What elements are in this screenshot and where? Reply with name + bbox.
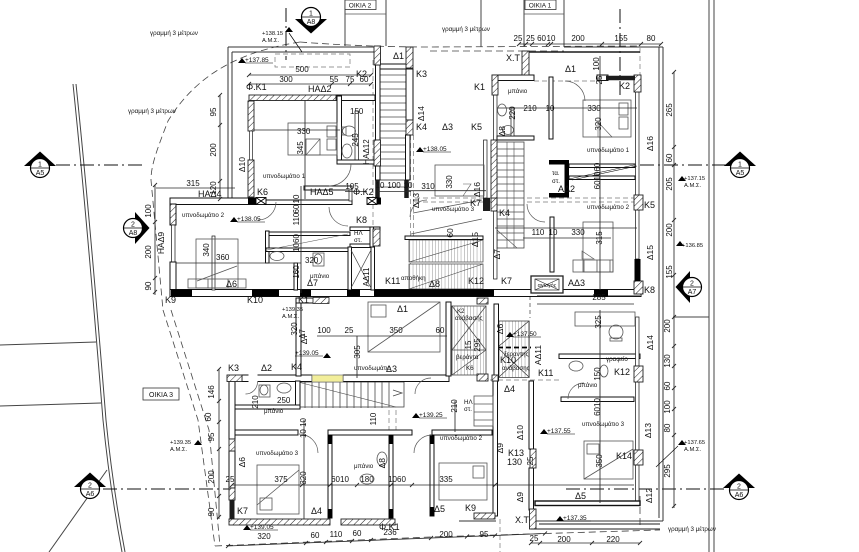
svg-text:Δ6: Δ6: [226, 279, 237, 289]
svg-text:ΟΙΚΙΑ 2: ΟΙΚΙΑ 2: [349, 3, 372, 10]
svg-text:2: 2: [131, 222, 135, 229]
svg-text:K12: K12: [614, 367, 630, 377]
svg-text:στ.: στ.: [354, 237, 362, 244]
svg-text:100: 100: [387, 181, 401, 190]
svg-text:25: 25: [530, 534, 539, 543]
svg-text:60: 60: [665, 153, 674, 162]
svg-text:155: 155: [614, 34, 628, 43]
svg-text:25: 25: [526, 456, 535, 465]
svg-text:A5: A5: [736, 170, 745, 177]
svg-text:K12: K12: [468, 276, 484, 286]
svg-text:υπνοδωμάτιο 2: υπνοδωμάτιο 2: [440, 435, 483, 442]
svg-text:350: 350: [595, 454, 604, 468]
svg-text:Δ12: Δ12: [644, 488, 654, 503]
svg-text:+137.65: +137.65: [684, 440, 705, 446]
svg-text:K10: K10: [247, 295, 263, 305]
svg-text:Δ4: Δ4: [311, 506, 322, 516]
svg-text:55: 55: [330, 75, 339, 84]
svg-text:210: 210: [523, 104, 537, 113]
svg-text:Δ3: Δ3: [442, 122, 453, 132]
svg-text:K11: K11: [385, 276, 400, 286]
svg-text:236: 236: [383, 528, 397, 537]
svg-text:υπνοδωμάτιο 3: υπνοδωμάτιο 3: [432, 206, 475, 213]
svg-text:K8: K8: [356, 215, 367, 225]
svg-text:K3: K3: [416, 69, 427, 79]
svg-text:10 10: 10 10: [299, 417, 308, 438]
svg-text:325: 325: [594, 315, 603, 329]
svg-text:K5: K5: [471, 122, 482, 132]
svg-text:200: 200: [665, 223, 674, 237]
svg-text:155: 155: [665, 265, 674, 279]
svg-text:2: 2: [690, 281, 694, 288]
svg-text:130: 130: [507, 457, 522, 467]
svg-text:1: 1: [309, 11, 313, 18]
svg-text:ΗΛ: ΗΛ: [354, 230, 363, 237]
svg-text:110: 110: [532, 228, 545, 237]
svg-text:στ.: στ.: [552, 178, 560, 185]
svg-text:+137.15: +137.15: [684, 176, 705, 182]
svg-text:Δ2: Δ2: [261, 363, 272, 373]
svg-text:+139.35: +139.35: [170, 440, 191, 446]
svg-text:X.T: X.T: [506, 53, 521, 63]
svg-text:X.T: X.T: [515, 515, 530, 525]
svg-text:90: 90: [207, 507, 216, 516]
svg-text:60: 60: [360, 75, 369, 84]
svg-text:K3: K3: [228, 363, 239, 373]
svg-text:ΗΑΔ5: ΗΑΔ5: [310, 187, 334, 197]
svg-text:γραμμή 3 μέτρων: γραμμή 3 μέτρων: [668, 526, 716, 533]
svg-text:υπνοδωμάτιο 2: υπνοδωμάτιο 2: [182, 212, 225, 219]
svg-text:330: 330: [297, 127, 311, 136]
svg-text:ΑΔ11: ΑΔ11: [533, 345, 543, 365]
svg-text:220: 220: [508, 106, 517, 120]
svg-text:ΗΛ: ΗΛ: [464, 399, 473, 406]
svg-text:K7: K7: [237, 506, 248, 516]
svg-text:10: 10: [292, 194, 301, 203]
svg-text:150: 150: [593, 367, 602, 381]
svg-text:220: 220: [606, 535, 620, 544]
svg-text:υπνοδωμάτιο 1: υπνοδωμάτιο 1: [587, 147, 630, 154]
svg-text:K11: K11: [538, 368, 553, 378]
svg-text:Δ8: Δ8: [497, 126, 507, 137]
svg-text:320: 320: [594, 117, 603, 131]
svg-text:120: 120: [209, 181, 218, 195]
svg-text:245: 245: [351, 133, 360, 147]
svg-text:305: 305: [353, 345, 362, 359]
svg-text:Δ15: Δ15: [470, 232, 480, 247]
svg-text:Δ13: Δ13: [411, 193, 421, 208]
svg-text:25: 25: [514, 34, 523, 43]
svg-text:Δ7: Δ7: [298, 329, 307, 339]
svg-text:ΟΙΚΙΑ 1: ΟΙΚΙΑ 1: [529, 3, 552, 10]
svg-text:6010: 6010: [593, 398, 602, 416]
svg-text:1: 1: [38, 162, 42, 169]
svg-text:υπνοδωμάτιο 2: υπνοδωμάτιο 2: [587, 204, 630, 211]
svg-text:μπάνιο: μπάνιο: [578, 382, 598, 389]
svg-text:200: 200: [439, 530, 453, 539]
svg-text:K9: K9: [165, 295, 176, 305]
svg-text:320: 320: [257, 532, 271, 541]
svg-text:Δ5: Δ5: [434, 504, 445, 514]
svg-text:210: 210: [251, 395, 260, 409]
svg-text:Δ5: Δ5: [575, 491, 586, 501]
svg-text:146: 146: [207, 385, 216, 399]
svg-text:110: 110: [330, 530, 343, 539]
svg-text:80: 80: [663, 423, 672, 432]
svg-text:Δ14: Δ14: [416, 106, 426, 121]
svg-text:Δ1: Δ1: [393, 51, 404, 61]
svg-text:295: 295: [663, 464, 672, 478]
svg-text:Δ6: Δ6: [237, 457, 247, 468]
svg-text:A7: A7: [688, 289, 697, 296]
svg-text:330: 330: [571, 228, 585, 237]
svg-text:μπάνιο: μπάνιο: [508, 88, 528, 95]
svg-text:80: 80: [647, 34, 656, 43]
svg-text:105: 105: [345, 182, 359, 191]
svg-text:+139.35: +139.35: [282, 307, 303, 313]
svg-text:2: 2: [737, 484, 741, 491]
svg-text:γραμμή 3 μέτρων: γραμμή 3 μέτρων: [150, 30, 198, 37]
svg-text:60: 60: [353, 529, 362, 538]
svg-text:25 60: 25 60: [526, 34, 547, 43]
svg-text:601060: 601060: [593, 162, 602, 189]
svg-text:95: 95: [209, 107, 218, 116]
svg-text:500: 500: [295, 65, 309, 74]
svg-text:95: 95: [480, 530, 489, 539]
svg-text:υπνοδωμάτιο 1: υπνοδωμάτιο 1: [263, 173, 306, 180]
svg-text:ανάβασης: ανάβασης: [502, 365, 530, 372]
svg-text:Δ4: Δ4: [504, 384, 515, 394]
svg-text:200: 200: [209, 143, 218, 157]
svg-text:Φ.Κ1: Φ.Κ1: [246, 82, 267, 92]
svg-text:Δ13: Δ13: [643, 423, 653, 438]
svg-text:ΗΑΔ12: ΗΑΔ12: [362, 139, 371, 165]
svg-text:Δ1: Δ1: [565, 64, 576, 74]
svg-text:265: 265: [665, 103, 674, 117]
svg-text:100: 100: [592, 57, 601, 71]
svg-text:1060: 1060: [292, 234, 301, 252]
svg-text:βεράντα: βεράντα: [456, 354, 479, 361]
svg-text:K1: K1: [298, 295, 309, 305]
svg-text:75: 75: [346, 75, 355, 84]
svg-text:Α.Μ.Σ.: Α.Μ.Σ.: [282, 314, 299, 320]
svg-text:υπνοδωμάτιο 3: υπνοδωμάτιο 3: [256, 450, 299, 457]
svg-text:310: 310: [421, 182, 435, 191]
svg-text:25: 25: [595, 75, 604, 84]
svg-text:υπνοδωμάτιο 3: υπνοδωμάτιο 3: [582, 421, 625, 428]
svg-text:K1: K1: [474, 82, 485, 92]
svg-text:180: 180: [360, 475, 374, 484]
svg-text:285: 285: [592, 293, 606, 302]
svg-text:315: 315: [595, 231, 604, 245]
svg-text:360: 360: [216, 253, 230, 262]
svg-text:345: 345: [296, 141, 305, 155]
svg-text:Α.Μ.Σ.: Α.Μ.Σ.: [262, 38, 279, 44]
svg-text:60: 60: [311, 531, 320, 540]
svg-text:320: 320: [305, 256, 319, 265]
svg-text:K8: K8: [644, 285, 655, 295]
svg-text:K4: K4: [416, 122, 427, 132]
svg-text:+136.85: +136.85: [682, 243, 703, 249]
svg-text:60: 60: [445, 228, 455, 238]
svg-text:110: 110: [292, 212, 301, 225]
svg-text:ανάβασης: ανάβασης: [455, 315, 483, 322]
svg-text:Δ16: Δ16: [645, 136, 655, 151]
svg-text:αγωγός: αγωγός: [538, 282, 557, 289]
svg-text:αποθήκη: αποθήκη: [401, 275, 426, 282]
svg-text:Δ15: Δ15: [645, 245, 655, 260]
svg-text:ΑΔ11: ΑΔ11: [362, 267, 371, 287]
svg-text:Δ1: Δ1: [397, 304, 408, 314]
svg-text:γραμμή 3 μέτρων: γραμμή 3 μέτρων: [128, 108, 176, 115]
svg-text:60: 60: [436, 326, 445, 335]
svg-text:335: 335: [439, 475, 453, 484]
svg-text:Δ10: Δ10: [237, 157, 247, 172]
svg-text:10: 10: [547, 34, 556, 43]
svg-text:Δ16: Δ16: [472, 182, 482, 197]
svg-text:A6: A6: [86, 491, 95, 498]
svg-text:+138.15: +138.15: [262, 31, 283, 37]
svg-text:60: 60: [204, 412, 213, 421]
svg-text:υπνοδωμάτιο: υπνοδωμάτιο: [354, 365, 391, 372]
svg-text:315: 315: [186, 179, 200, 188]
svg-text:95: 95: [207, 432, 216, 441]
svg-text:μπάνιο: μπάνιο: [354, 463, 374, 470]
svg-text:60: 60: [663, 381, 672, 390]
svg-text:205: 205: [665, 177, 674, 191]
svg-text:ΗΑΔ9: ΗΑΔ9: [156, 232, 166, 254]
svg-text:320: 320: [299, 471, 308, 485]
svg-text:Δ8: Δ8: [429, 279, 440, 289]
svg-text:Δ14: Δ14: [645, 335, 655, 350]
svg-text:150: 150: [350, 107, 364, 116]
svg-text:μπάνιο: μπάνιο: [264, 408, 284, 415]
svg-text:295: 295: [473, 338, 482, 352]
svg-text:K2: K2: [619, 81, 630, 91]
svg-text:200: 200: [557, 535, 571, 544]
svg-text:200: 200: [571, 34, 585, 43]
svg-text:15: 15: [464, 340, 473, 349]
svg-text:K6: K6: [257, 187, 268, 197]
svg-text:A6: A6: [735, 492, 744, 499]
svg-text:1: 1: [738, 162, 742, 169]
svg-text:340: 340: [202, 243, 211, 257]
svg-text:1060: 1060: [388, 475, 406, 484]
svg-text:200: 200: [207, 470, 216, 484]
svg-text:Κ2: Κ2: [457, 308, 465, 315]
svg-text:100: 100: [317, 326, 331, 335]
svg-text:110: 110: [369, 412, 378, 425]
svg-text:γραμμή 3 μέτρων: γραμμή 3 μέτρων: [442, 26, 490, 33]
svg-text:K14: K14: [616, 451, 632, 461]
svg-text:300: 300: [279, 75, 293, 84]
svg-text:2: 2: [88, 483, 92, 490]
svg-text:ΑΔ2: ΑΔ2: [558, 184, 575, 194]
svg-text:160: 160: [292, 265, 301, 279]
svg-text:A8: A8: [129, 230, 138, 237]
svg-text:K4: K4: [499, 208, 510, 218]
svg-text:Δ9: Δ9: [515, 492, 525, 503]
svg-text:100: 100: [144, 204, 153, 218]
svg-text:6010: 6010: [331, 475, 349, 484]
svg-text:ΗΑΔ2: ΗΑΔ2: [308, 84, 332, 94]
svg-text:Δ10: Δ10: [515, 425, 525, 440]
svg-text:330: 330: [587, 104, 601, 113]
svg-text:Δ7: Δ7: [492, 249, 502, 260]
svg-text:200: 200: [144, 245, 153, 259]
svg-text:Δ6: Δ6: [495, 324, 505, 335]
svg-text:ξεραντης: ξεραντης: [504, 351, 529, 358]
svg-text:10: 10: [404, 181, 413, 190]
svg-text:K6: K6: [466, 365, 474, 372]
svg-text:25: 25: [345, 326, 354, 335]
svg-text:200: 200: [663, 319, 672, 333]
svg-text:γραφείο: γραφείο: [606, 356, 628, 363]
svg-text:μπάνιο: μπάνιο: [310, 273, 330, 280]
svg-text:130: 130: [663, 354, 672, 368]
svg-text:Δ9: Δ9: [495, 443, 505, 454]
svg-text:ΟΙΚΙΑ 3: ΟΙΚΙΑ 3: [149, 392, 173, 399]
svg-text:25: 25: [226, 475, 235, 484]
svg-text:K5: K5: [644, 200, 655, 210]
svg-text:Δ8: Δ8: [377, 458, 387, 469]
svg-text:στ.: στ.: [464, 406, 472, 413]
svg-text:A8: A8: [307, 19, 316, 26]
svg-text:τα.: τα.: [552, 170, 560, 177]
svg-text:A5: A5: [36, 170, 45, 177]
svg-text:Α.Μ.Σ.: Α.Μ.Σ.: [170, 447, 187, 453]
svg-text:10: 10: [546, 104, 555, 113]
svg-text:90: 90: [144, 281, 153, 290]
svg-text:250: 250: [277, 396, 291, 405]
svg-text:330: 330: [445, 175, 454, 189]
svg-text:Α.Μ.Σ.: Α.Μ.Σ.: [684, 183, 701, 189]
svg-text:10: 10: [549, 228, 558, 237]
svg-text:210: 210: [450, 399, 459, 413]
svg-text:Α.Μ.Σ.: Α.Μ.Σ.: [684, 447, 701, 453]
svg-text:K7: K7: [501, 276, 512, 286]
svg-text:ΑΔ3: ΑΔ3: [568, 278, 585, 288]
svg-text:375: 375: [274, 475, 288, 484]
svg-text:350: 350: [389, 326, 403, 335]
svg-text:K4: K4: [291, 362, 302, 372]
svg-text:K9: K9: [465, 503, 476, 513]
svg-text:60: 60: [292, 204, 301, 213]
svg-text:10: 10: [376, 181, 385, 190]
svg-text:100: 100: [663, 400, 672, 414]
